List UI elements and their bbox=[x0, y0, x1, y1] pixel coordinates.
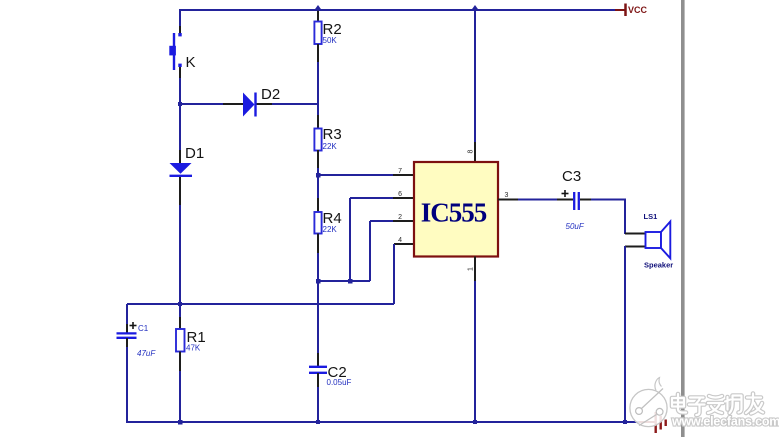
diode D2 bbox=[243, 86, 280, 117]
wire D1 branch bbox=[179, 104, 181, 150]
wire pin 8 branch bbox=[474, 10, 476, 142]
speaker LS1 bbox=[644, 212, 674, 270]
wire bottom rail bbox=[126, 421, 640, 423]
wire pin 3 out bbox=[498, 199, 518, 201]
capacitor C2 bbox=[309, 353, 352, 387]
wire pin 4 bbox=[394, 243, 414, 245]
wire D2 horizontal bbox=[180, 103, 223, 105]
wire middle rail from top bbox=[317, 10, 319, 21]
node C2 bottom bbox=[316, 420, 320, 424]
svg-text:0.05uF: 0.05uF bbox=[327, 378, 352, 387]
wire pin 1 down bbox=[474, 257, 476, 282]
svg-text:22K: 22K bbox=[323, 142, 338, 151]
node reset junction bbox=[178, 302, 182, 306]
power port VCC bbox=[615, 4, 648, 17]
wire R2 bottom bbox=[317, 44, 319, 62]
resistor R4 bbox=[314, 210, 341, 234]
resistor R3 bbox=[314, 126, 341, 151]
svg-text:8: 8 bbox=[468, 150, 475, 154]
capacitor C3 bbox=[562, 168, 585, 231]
svg-text:Speaker: Speaker bbox=[644, 261, 673, 270]
svg-text:50uF: 50uF bbox=[566, 222, 585, 231]
svg-text:www.elecfans.com: www.elecfans.com bbox=[671, 415, 779, 429]
svg-text:C3: C3 bbox=[562, 168, 581, 185]
node pins 2-6 junction bbox=[316, 279, 321, 284]
wire reset line bbox=[127, 303, 394, 305]
svg-text:22K: 22K bbox=[323, 225, 338, 234]
watermark logo bbox=[630, 378, 667, 427]
node speaker bottom bbox=[623, 420, 627, 424]
svg-text:2: 2 bbox=[398, 214, 402, 221]
svg-text:47uF: 47uF bbox=[137, 349, 156, 358]
svg-text:4: 4 bbox=[398, 237, 402, 244]
resistor R1 bbox=[176, 304, 206, 423]
svg-text:C1: C1 bbox=[138, 324, 149, 333]
node pin1 bottom bbox=[473, 420, 477, 424]
wire pin 7 bbox=[318, 174, 393, 176]
wire R4 bottom bbox=[317, 234, 319, 254]
svg-text:D2: D2 bbox=[261, 86, 280, 103]
svg-text:LS1: LS1 bbox=[644, 212, 658, 221]
svg-text:6: 6 bbox=[398, 191, 402, 198]
wire top rail VCC bbox=[179, 9, 615, 11]
wire pin 2 bbox=[370, 220, 393, 222]
switch K bbox=[169, 33, 195, 71]
node arrow junction R2 top bbox=[314, 5, 322, 11]
wire C2 bottom bbox=[317, 387, 319, 423]
svg-text:VCC: VCC bbox=[628, 5, 648, 15]
node tie junction bbox=[348, 279, 353, 284]
svg-text:1: 1 bbox=[468, 267, 475, 271]
op-amp timer U1 IC555 bbox=[414, 162, 498, 257]
wire pins 2-6 tie bbox=[318, 280, 370, 282]
diode D1 bbox=[170, 145, 205, 176]
svg-text:7: 7 bbox=[398, 168, 402, 175]
node D2 junction bbox=[178, 102, 182, 106]
resistor R2 bbox=[314, 21, 341, 45]
wire left rail C1 bbox=[126, 304, 128, 324]
capacitor C1 bbox=[117, 322, 157, 358]
wire speaker branch bbox=[624, 200, 626, 235]
svg-text:50K: 50K bbox=[323, 36, 338, 45]
wire K to D2 junction bbox=[179, 67, 181, 78]
ground bbox=[639, 412, 666, 433]
svg-text:47K: 47K bbox=[186, 344, 201, 353]
node pin7 junction bbox=[316, 173, 321, 178]
svg-text:IC555: IC555 bbox=[421, 198, 487, 228]
watermark gray bar bbox=[681, 0, 685, 437]
node arrow junction pin8 bbox=[471, 5, 479, 11]
svg-text:3: 3 bbox=[505, 192, 509, 199]
wire R3 bottom bbox=[317, 150, 319, 168]
svg-text:D1: D1 bbox=[185, 145, 204, 162]
wire pin 6 bbox=[350, 197, 393, 199]
svg-text:K: K bbox=[186, 54, 196, 71]
wire left branch down from top rail bbox=[179, 9, 181, 26]
node R1 bottom bbox=[178, 420, 183, 425]
svg-text:R3: R3 bbox=[323, 126, 342, 143]
